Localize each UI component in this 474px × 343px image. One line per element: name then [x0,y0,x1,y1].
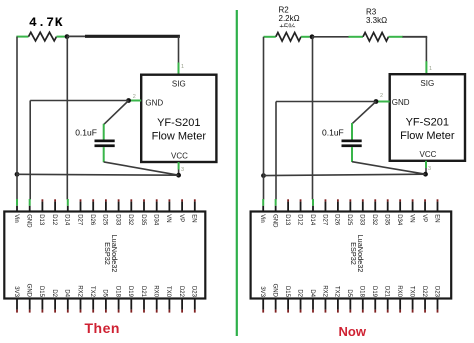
svg-text:SIG: SIG [172,80,186,89]
node: divider mid junction [310,34,315,39]
svg-text:YF-S201: YF-S201 [406,116,449,128]
pin right top D27 [321,199,327,226]
svg-text:GND: GND [26,284,32,298]
svg-text:VCC: VCC [420,150,437,159]
wire: VCC pin stub (green) [178,162,180,175]
wire: GND pin stub (green) [130,100,142,102]
module right: LuaNode32 ESP32 board [251,212,452,299]
svg-text:D2: D2 [51,289,57,297]
svg-text:D13: D13 [284,214,290,226]
svg-text:D18: D18 [114,286,120,298]
svg-text:ESP32: ESP32 [103,242,112,265]
svg-text:D21: D21 [140,286,146,298]
capacitor C2 0.1uF [342,123,362,162]
pin left top D33 [114,199,120,226]
pin right top Vin [259,199,265,223]
pin right bottom RX2 [321,285,327,312]
svg-text:GND: GND [145,98,163,107]
svg-text:2: 2 [133,94,136,100]
pin right top D33 [359,199,365,226]
svg-text:3V3: 3V3 [259,286,265,297]
wire: mid junction to board D14 pin (right) [312,37,314,200]
resistor R2 2.2k [264,33,310,42]
wire: SIG pin stub right (green) [425,61,427,74]
wire: capacitor bottom to VCC junction (diagonal) [104,162,179,175]
pin right bottom D18 [359,286,365,313]
pin left bottom GND [26,284,32,313]
svg-text:Flow Meter: Flow Meter [152,130,207,142]
pin left top D34 [153,199,159,226]
pin right bottom D5 [346,289,352,312]
pin left bottom D18 [114,286,120,313]
svg-text:D15: D15 [284,286,290,298]
svg-text:RX2: RX2 [76,285,82,297]
svg-text:0.1uF: 0.1uF [322,128,344,138]
pin right top D12 [296,199,302,226]
svg-text:D14: D14 [64,214,70,226]
node: GND junction (right) [374,99,379,104]
pin left top D25 [102,199,108,226]
svg-text:D25: D25 [102,214,108,226]
pin right bottom TX2 [334,286,340,313]
svg-text:D5: D5 [102,289,108,297]
pin left bottom 3V3 [13,286,19,312]
pin right bottom D2 [296,289,302,312]
wire: VCC pin stub right (green) [425,161,427,174]
wire: mid junction to R3 [312,36,350,38]
pin left top D35 [140,199,146,226]
svg-text:TX0: TX0 [408,286,414,298]
svg-text:D19: D19 [127,286,133,298]
svg-text:Vin: Vin [13,214,19,223]
svg-text:VP: VP [178,214,184,222]
svg-text:D19: D19 [371,286,377,298]
svg-text:D13: D13 [38,214,44,226]
pin left top EN [191,199,197,222]
wire: junction to SIG corner (thick) [67,36,180,63]
svg-text:Flow Meter: Flow Meter [400,130,455,142]
wire: 5V vertical (resistor left to Vin pin) [16,37,18,200]
svg-text:TX2: TX2 [89,286,95,298]
wire: 5V rail to VCC junction [17,173,179,176]
svg-text:D4: D4 [309,289,315,297]
pin right bottom 3V3 [259,286,265,312]
resistor R2 label [279,6,300,24]
svg-text:D25: D25 [346,214,352,226]
svg-text:D27: D27 [76,214,82,226]
pin left top D32 [127,199,133,226]
pin right top D25 [346,199,352,226]
svg-text:TX2: TX2 [334,286,340,298]
svg-text:Now: Now [339,324,367,339]
svg-text:SIG: SIG [420,79,434,88]
pin right bottom RX0 [396,285,402,312]
wire: SIG pin stub (green) [178,63,180,75]
pin left bottom TX2 [89,286,95,313]
node: 5V tap junction (right) [261,173,266,178]
svg-text:VP: VP [421,214,427,222]
svg-text:D26: D26 [89,214,95,226]
svg-text:GND: GND [271,284,277,298]
pin left top D12 [51,199,57,226]
pin left bottom D5 [102,289,108,312]
svg-text:D22: D22 [421,286,427,298]
svg-text:VCC: VCC [171,151,188,160]
pin right bottom TX0 [408,286,414,313]
wire: GND junction to capacitor C1 top (diagonal) [104,101,129,125]
svg-text:D35: D35 [384,214,390,226]
resistor R3 3.3k [349,33,404,42]
svg-text:D23: D23 [191,286,197,298]
divider: green separator line [236,10,238,336]
node: VCC junction (left) [176,173,181,178]
svg-text:0.1uF: 0.1uF [75,128,97,138]
pin left top GND [26,199,32,228]
svg-text:1: 1 [181,64,184,70]
wire: GND horizontal [30,100,128,102]
svg-text:D21: D21 [384,286,390,298]
pin left top VN [165,199,171,222]
label: LuaNode32 ESP32 (left board) [103,235,119,273]
pin left top VP [178,199,184,222]
resistor R 4.7K [16,32,64,41]
op: YF-S201 flow meter box (left) U1 [141,75,216,162]
resistor R3 label [366,8,387,26]
svg-text:RX0: RX0 [153,285,159,297]
svg-text:ESP32: ESP32 [349,242,358,265]
svg-text:D26: D26 [334,214,340,226]
svg-text:D33: D33 [359,214,365,226]
pin left bottom D22 [178,286,184,313]
pin right top VN [408,199,414,222]
node: resistor right / D14 / SIG junction [65,34,70,39]
svg-text:±5%: ±5% [280,23,296,32]
svg-text:Then: Then [85,320,120,336]
svg-text:D33: D33 [114,214,120,226]
node: VCC junction (right) [423,172,428,177]
svg-text:D27: D27 [321,214,327,226]
node: 5V tap junction (left) [15,172,20,177]
svg-text:4.7K: 4.7K [29,15,63,30]
svg-text:GND: GND [392,98,410,107]
pin right top D14 [309,199,315,226]
svg-text:D4: D4 [64,289,70,297]
pin left bottom D19 [127,286,133,313]
svg-text:2.2kΩ: 2.2kΩ [279,14,300,23]
wire: GND vertical to board GND pin (right) [275,102,277,200]
pin left bottom RX0 [153,285,159,312]
pin left top Vin [13,199,19,223]
wire: 5V vertical right (R2 left to Vin pin) [263,37,265,200]
pin right top D26 [334,199,340,226]
wire: GND vertical to board GND pin [29,101,31,200]
svg-text:D34: D34 [153,214,159,226]
wire: GND horizontal (right) [276,101,376,103]
svg-text:D12: D12 [296,214,302,226]
node: GND junction (left) [126,98,131,103]
pin right bottom D4 [309,289,315,312]
pin left bottom D21 [140,286,146,313]
svg-text:EN: EN [191,214,197,222]
pin right bottom GND [271,284,277,313]
svg-text:D18: D18 [359,286,365,298]
svg-text:D15: D15 [38,286,44,298]
svg-text:D23: D23 [433,286,439,298]
svg-text:D32: D32 [127,214,133,226]
svg-text:TX0: TX0 [165,286,171,298]
resistor R2 tolerance (clipped) [280,23,296,32]
pin left bottom D4 [64,289,70,312]
svg-text:D2: D2 [296,289,302,297]
pin right top D13 [284,199,290,226]
label: LuaNode32 ESP32 (right board) [349,235,365,273]
pin right top EN [433,199,439,222]
pin left top D13 [38,199,44,226]
wire: GND pin stub right (green) [378,101,390,103]
svg-text:YF-S201: YF-S201 [157,117,200,129]
svg-text:GND: GND [26,214,32,228]
svg-text:3.3kΩ: 3.3kΩ [366,16,387,25]
svg-text:GND: GND [271,214,277,228]
svg-text:2: 2 [380,93,383,99]
pin right bottom D19 [371,286,377,313]
pin left bottom RX2 [76,285,82,312]
wire: junction to board D14 pin [66,37,68,200]
svg-text:RX2: RX2 [321,285,327,297]
pin left top D14 [64,199,70,226]
pin left top D27 [76,199,82,226]
svg-text:D5: D5 [346,289,352,297]
svg-text:D14: D14 [309,214,315,226]
svg-text:1: 1 [429,66,432,72]
module left: LuaNode32 ESP32 board [4,212,205,299]
capacitor C1 0.1uF [95,124,115,162]
svg-text:3V3: 3V3 [13,286,19,297]
svg-text:Vin: Vin [259,214,265,223]
pin left top D26 [89,199,95,226]
pin right top D35 [384,199,390,226]
wire: R3 to SIG corner [403,37,428,62]
pin right bottom D15 [284,286,290,313]
svg-text:D35: D35 [140,214,146,226]
op: YF-S201 flow meter box (right) U2 [390,74,465,161]
svg-text:D32: D32 [371,214,377,226]
pin right bottom D23 [433,286,439,313]
pin right top D34 [396,199,402,226]
svg-text:D22: D22 [178,286,184,298]
svg-text:3: 3 [428,166,431,172]
pin left bottom TX0 [165,286,171,313]
svg-text:VN: VN [408,214,414,222]
svg-text:RX0: RX0 [396,285,402,297]
pin left bottom D15 [38,286,44,313]
svg-text:EN: EN [433,214,439,222]
pin right top GND [271,199,277,228]
pin right top VP [421,199,427,222]
svg-text:3: 3 [181,167,184,173]
pin right bottom D22 [421,286,427,313]
wire: capacitor C2 bottom to VCC junction (diagonal) [352,162,426,175]
svg-text:D34: D34 [396,214,402,226]
pin left bottom D2 [51,289,57,312]
wire: 5V rail to VCC junction (right) [264,174,426,175]
svg-text:D12: D12 [51,214,57,226]
pin left bottom D23 [191,286,197,313]
svg-text:VN: VN [165,214,171,222]
pin right top D32 [371,199,377,226]
pin right bottom D21 [384,286,390,313]
wire: GND junction to capacitor C2 top (diagonal) [352,102,376,124]
